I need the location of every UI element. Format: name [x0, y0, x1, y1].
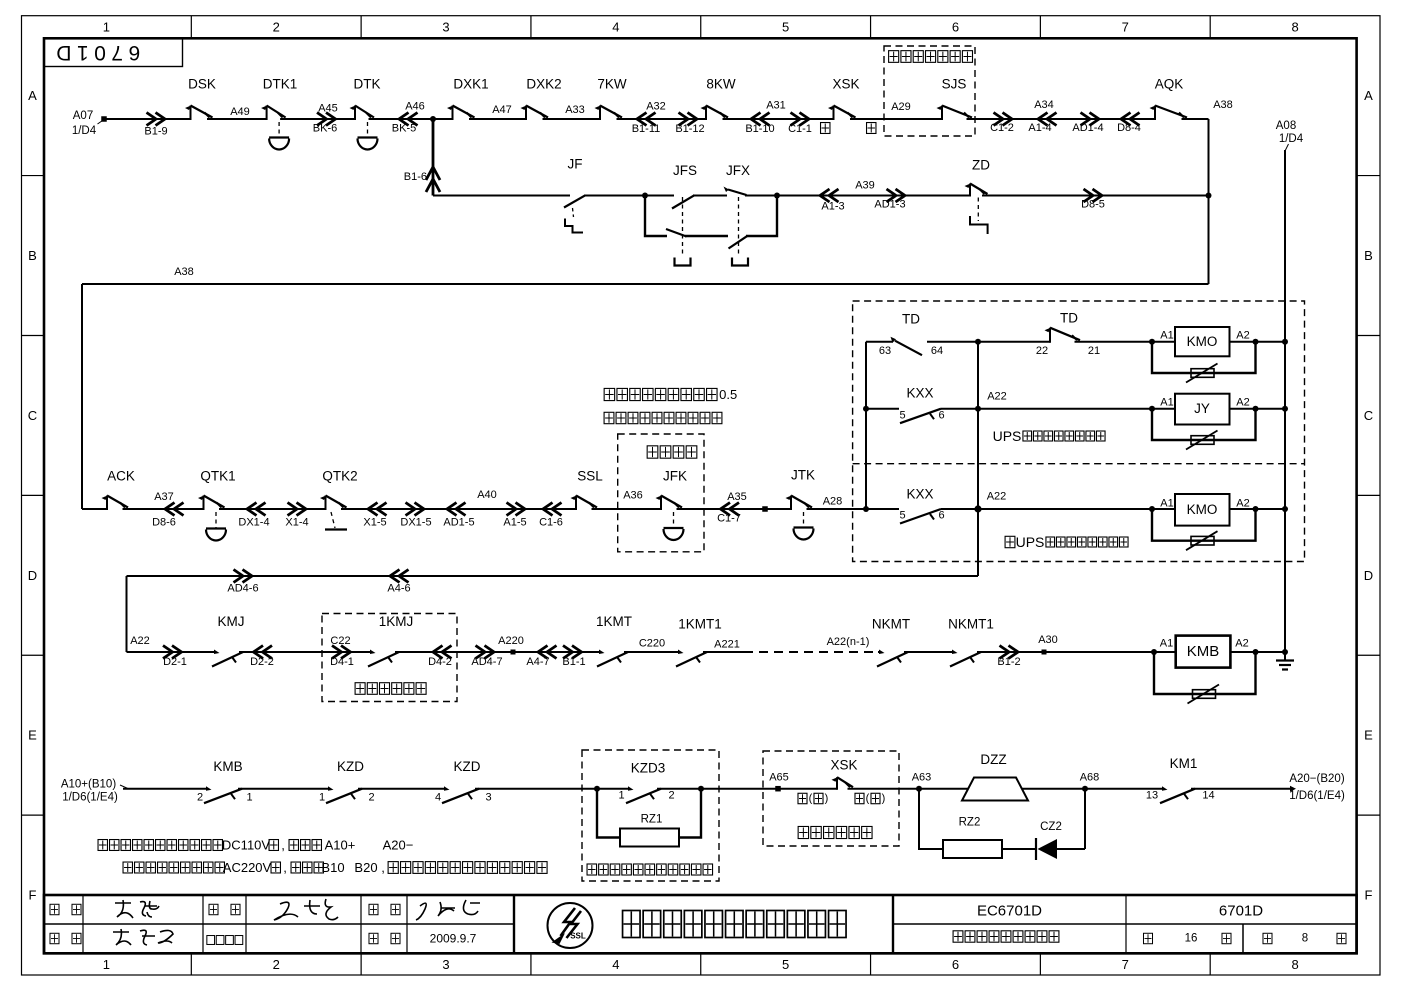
- svg-text:13: 13: [1146, 790, 1158, 802]
- svg-text:RZ1: RZ1: [641, 814, 663, 826]
- svg-text:ZD: ZD: [972, 158, 990, 173]
- svg-text:B: B: [1364, 248, 1373, 263]
- svg-text:B10: B10: [321, 860, 344, 875]
- svg-text:D2-2: D2-2: [250, 656, 274, 668]
- svg-text:D4-2: D4-2: [428, 656, 452, 668]
- svg-text:XSK: XSK: [830, 758, 857, 773]
- svg-text:F: F: [29, 888, 37, 903]
- svg-text:A22: A22: [987, 391, 1007, 403]
- svg-text:A220: A220: [498, 635, 524, 647]
- svg-text:AD1-3: AD1-3: [874, 199, 905, 211]
- svg-text:A28: A28: [823, 496, 843, 508]
- svg-text:2009.9.7: 2009.9.7: [430, 932, 477, 946]
- svg-text:A08: A08: [1276, 120, 1296, 132]
- svg-text:7: 7: [1122, 957, 1129, 972]
- svg-text:AD4-7: AD4-7: [471, 656, 502, 668]
- svg-text:SSL: SSL: [570, 932, 586, 941]
- svg-text:2: 2: [668, 790, 674, 802]
- svg-text:AD1-5: AD1-5: [443, 517, 474, 529]
- svg-text:A1: A1: [1160, 330, 1173, 342]
- svg-text:AC220V: AC220V: [223, 860, 272, 875]
- svg-text:1: 1: [246, 792, 252, 804]
- svg-text:A33: A33: [565, 104, 585, 116]
- svg-text:63: 63: [879, 345, 891, 357]
- svg-text:2: 2: [368, 792, 374, 804]
- svg-text:1: 1: [618, 790, 624, 802]
- svg-text:A22: A22: [130, 635, 150, 647]
- svg-text:2: 2: [273, 20, 280, 35]
- svg-text:6701D: 6701D: [51, 41, 140, 64]
- svg-text:A39: A39: [855, 180, 875, 192]
- svg-text:DZZ: DZZ: [980, 752, 1006, 767]
- svg-text:16: 16: [1185, 933, 1198, 945]
- svg-text:1KMT1: 1KMT1: [678, 617, 722, 632]
- svg-text:RZ2: RZ2: [959, 817, 981, 829]
- svg-text:KZD: KZD: [337, 759, 364, 774]
- svg-text:KXX: KXX: [906, 487, 933, 502]
- svg-text:,: ,: [281, 838, 285, 853]
- svg-text:A: A: [1364, 88, 1373, 103]
- svg-text:A: A: [28, 88, 37, 103]
- svg-text:A1: A1: [1160, 638, 1173, 650]
- svg-text:D: D: [1364, 568, 1373, 583]
- svg-text:JY: JY: [1194, 401, 1210, 416]
- svg-text:3: 3: [442, 20, 449, 35]
- svg-text:7: 7: [1122, 20, 1129, 35]
- svg-text:D2-1: D2-1: [163, 656, 187, 668]
- svg-text:DXK2: DXK2: [526, 77, 561, 92]
- svg-text:21: 21: [1088, 345, 1100, 357]
- svg-text:3: 3: [442, 957, 449, 972]
- svg-text:1: 1: [103, 20, 110, 35]
- svg-text:DC110V: DC110V: [222, 838, 271, 853]
- svg-text:DXK1: DXK1: [453, 77, 488, 92]
- svg-text:1/D4: 1/D4: [1279, 133, 1304, 145]
- svg-text:4: 4: [612, 957, 619, 972]
- svg-text:A22: A22: [987, 491, 1007, 503]
- svg-text:3: 3: [485, 792, 491, 804]
- svg-text:64: 64: [931, 345, 943, 357]
- svg-text:QTK2: QTK2: [322, 469, 357, 484]
- svg-text:5: 5: [782, 957, 789, 972]
- svg-text:NKMT: NKMT: [872, 617, 910, 632]
- svg-text:(: (: [809, 793, 813, 805]
- svg-text:8: 8: [1291, 957, 1298, 972]
- svg-text:B20: B20: [354, 860, 377, 875]
- svg-text:KZD: KZD: [454, 759, 481, 774]
- svg-text:A29: A29: [891, 101, 911, 113]
- svg-text:A45: A45: [318, 103, 338, 115]
- svg-text:A68: A68: [1080, 772, 1100, 784]
- svg-text:BK-6: BK-6: [313, 123, 337, 135]
- svg-text:A1: A1: [1160, 498, 1173, 510]
- svg-text:B1-6: B1-6: [404, 171, 427, 183]
- svg-text:X1-5: X1-5: [363, 517, 386, 529]
- svg-text:1KMJ: 1KMJ: [379, 614, 414, 629]
- svg-text:8: 8: [1291, 20, 1298, 35]
- svg-text:A1-4: A1-4: [1028, 122, 1051, 134]
- svg-text:22: 22: [1036, 345, 1048, 357]
- svg-text:1: 1: [103, 957, 110, 972]
- svg-text:JFK: JFK: [663, 469, 687, 484]
- svg-text:D8-5: D8-5: [1081, 199, 1105, 211]
- svg-text:KMO: KMO: [1187, 334, 1218, 349]
- svg-text:E: E: [1364, 728, 1373, 743]
- svg-text:JFS: JFS: [673, 163, 697, 178]
- svg-text:B1-9: B1-9: [144, 126, 167, 138]
- svg-text:E: E: [28, 728, 37, 743]
- svg-text:A30: A30: [1038, 634, 1058, 646]
- svg-text:KMB: KMB: [1187, 643, 1220, 660]
- svg-text:ACK: ACK: [107, 469, 135, 484]
- svg-text:4: 4: [435, 792, 441, 804]
- svg-text:): ): [825, 793, 829, 805]
- svg-text:6701D: 6701D: [1219, 903, 1263, 920]
- svg-text:2: 2: [273, 957, 280, 972]
- svg-text:B1-11: B1-11: [632, 123, 661, 135]
- svg-text:KM1: KM1: [1170, 756, 1198, 771]
- svg-text:A07: A07: [73, 110, 93, 122]
- svg-text:SSL: SSL: [577, 469, 603, 484]
- svg-text:1/D6(1/E4): 1/D6(1/E4): [1289, 790, 1345, 802]
- svg-text:A2: A2: [1236, 498, 1249, 510]
- svg-text:C: C: [28, 408, 37, 423]
- svg-text:A36: A36: [623, 490, 643, 502]
- svg-text:A40: A40: [477, 489, 497, 501]
- svg-text:AD4-6: AD4-6: [227, 583, 258, 595]
- svg-text:5: 5: [782, 20, 789, 35]
- svg-text:SJS: SJS: [942, 77, 967, 92]
- svg-text:4: 4: [612, 20, 619, 35]
- svg-text:DTK: DTK: [354, 77, 381, 92]
- svg-text:): ): [882, 793, 886, 805]
- svg-text:6: 6: [952, 957, 959, 972]
- svg-text:A65: A65: [769, 772, 789, 784]
- svg-text:5: 5: [899, 510, 905, 522]
- svg-text:A4-7: A4-7: [526, 656, 549, 668]
- svg-text:AQK: AQK: [1155, 77, 1184, 92]
- svg-text:A1-5: A1-5: [503, 517, 526, 529]
- svg-text:C1-7: C1-7: [717, 513, 741, 525]
- svg-text:X1-4: X1-4: [285, 517, 308, 529]
- svg-text:QTK1: QTK1: [200, 469, 235, 484]
- svg-text:DSK: DSK: [188, 77, 216, 92]
- svg-text:,: ,: [283, 860, 287, 875]
- svg-text:A63: A63: [912, 772, 932, 784]
- svg-text:XSK: XSK: [832, 77, 859, 92]
- svg-text:C220: C220: [639, 638, 665, 650]
- svg-text:A37: A37: [154, 491, 174, 503]
- svg-text:A221: A221: [714, 639, 740, 651]
- svg-text:DTK1: DTK1: [263, 77, 298, 92]
- svg-text:B1-10: B1-10: [745, 123, 774, 135]
- svg-text:A2: A2: [1236, 397, 1249, 409]
- svg-text:8: 8: [1302, 933, 1308, 945]
- svg-text:A32: A32: [646, 101, 666, 113]
- svg-text:A49: A49: [230, 106, 250, 118]
- svg-text:A35: A35: [727, 491, 747, 503]
- svg-text:JF: JF: [568, 157, 583, 172]
- svg-text:DX1-5: DX1-5: [400, 517, 431, 529]
- svg-text:,: ,: [381, 860, 385, 875]
- svg-text:TD: TD: [902, 312, 920, 327]
- svg-text:A1-3: A1-3: [821, 201, 844, 213]
- svg-text:A38: A38: [174, 266, 194, 278]
- svg-text:6: 6: [952, 20, 959, 35]
- svg-text:6: 6: [938, 410, 944, 422]
- svg-text:F: F: [1365, 888, 1373, 903]
- svg-text:A2: A2: [1235, 638, 1248, 650]
- svg-text:EC6701D: EC6701D: [977, 903, 1042, 920]
- svg-text:KMO: KMO: [1187, 502, 1218, 517]
- svg-text:1KMT: 1KMT: [596, 614, 632, 629]
- svg-text:(: (: [866, 793, 870, 805]
- svg-text:TD: TD: [1060, 311, 1078, 326]
- svg-text:1/D6(1/E4): 1/D6(1/E4): [62, 792, 118, 804]
- svg-text:A20−: A20−: [383, 838, 414, 853]
- svg-text:A4-6: A4-6: [387, 583, 410, 595]
- svg-text:6: 6: [938, 510, 944, 522]
- svg-text:A47: A47: [492, 104, 512, 116]
- svg-text:KMJ: KMJ: [218, 614, 245, 629]
- svg-text:CZ2: CZ2: [1040, 821, 1062, 833]
- svg-text:A46: A46: [405, 101, 425, 113]
- svg-text:B1-1: B1-1: [562, 656, 585, 668]
- svg-text:B: B: [28, 248, 37, 263]
- svg-text:C: C: [1364, 408, 1373, 423]
- svg-text:0.5: 0.5: [719, 387, 737, 402]
- svg-text:14: 14: [1202, 790, 1214, 802]
- svg-text:C1-1: C1-1: [788, 123, 812, 135]
- svg-text:D8-6: D8-6: [152, 517, 176, 529]
- svg-text:A10+(B10): A10+(B10): [61, 779, 116, 791]
- svg-text:C1-2: C1-2: [990, 122, 1014, 134]
- svg-text:A2: A2: [1236, 330, 1249, 342]
- svg-text:DX1-4: DX1-4: [238, 517, 269, 529]
- svg-text:UPS: UPS: [1016, 534, 1045, 550]
- svg-text:A20−(B20): A20−(B20): [1289, 773, 1344, 785]
- svg-text:B1-2: B1-2: [997, 656, 1020, 668]
- svg-text:UPS: UPS: [993, 428, 1022, 444]
- svg-text:JTK: JTK: [791, 468, 815, 483]
- svg-text:A34: A34: [1034, 99, 1054, 111]
- svg-text:A1: A1: [1160, 397, 1173, 409]
- svg-text:1: 1: [319, 792, 325, 804]
- svg-text:KZD3: KZD3: [631, 761, 666, 776]
- svg-text:B1-12: B1-12: [675, 123, 704, 135]
- svg-text:D4-1: D4-1: [330, 656, 354, 668]
- svg-text:KXX: KXX: [906, 386, 933, 401]
- svg-text:5: 5: [899, 410, 905, 422]
- svg-text:A38: A38: [1213, 99, 1233, 111]
- svg-text:1/D4: 1/D4: [72, 125, 97, 137]
- svg-text:8KW: 8KW: [706, 77, 736, 92]
- svg-text:A22(n-1): A22(n-1): [827, 636, 870, 648]
- svg-text:C1-6: C1-6: [539, 517, 563, 529]
- svg-text:A10+: A10+: [325, 838, 356, 853]
- svg-text:JFX: JFX: [726, 163, 750, 178]
- svg-text:AD1-4: AD1-4: [1072, 122, 1103, 134]
- svg-text:D: D: [28, 568, 37, 583]
- svg-text:NKMT1: NKMT1: [948, 617, 994, 632]
- svg-text:2: 2: [197, 792, 203, 804]
- svg-text:A31: A31: [766, 100, 786, 112]
- svg-text:7KW: 7KW: [597, 77, 627, 92]
- svg-text:BK-5: BK-5: [392, 123, 416, 135]
- svg-text:D8-4: D8-4: [1117, 122, 1141, 134]
- svg-text:KMB: KMB: [213, 759, 242, 774]
